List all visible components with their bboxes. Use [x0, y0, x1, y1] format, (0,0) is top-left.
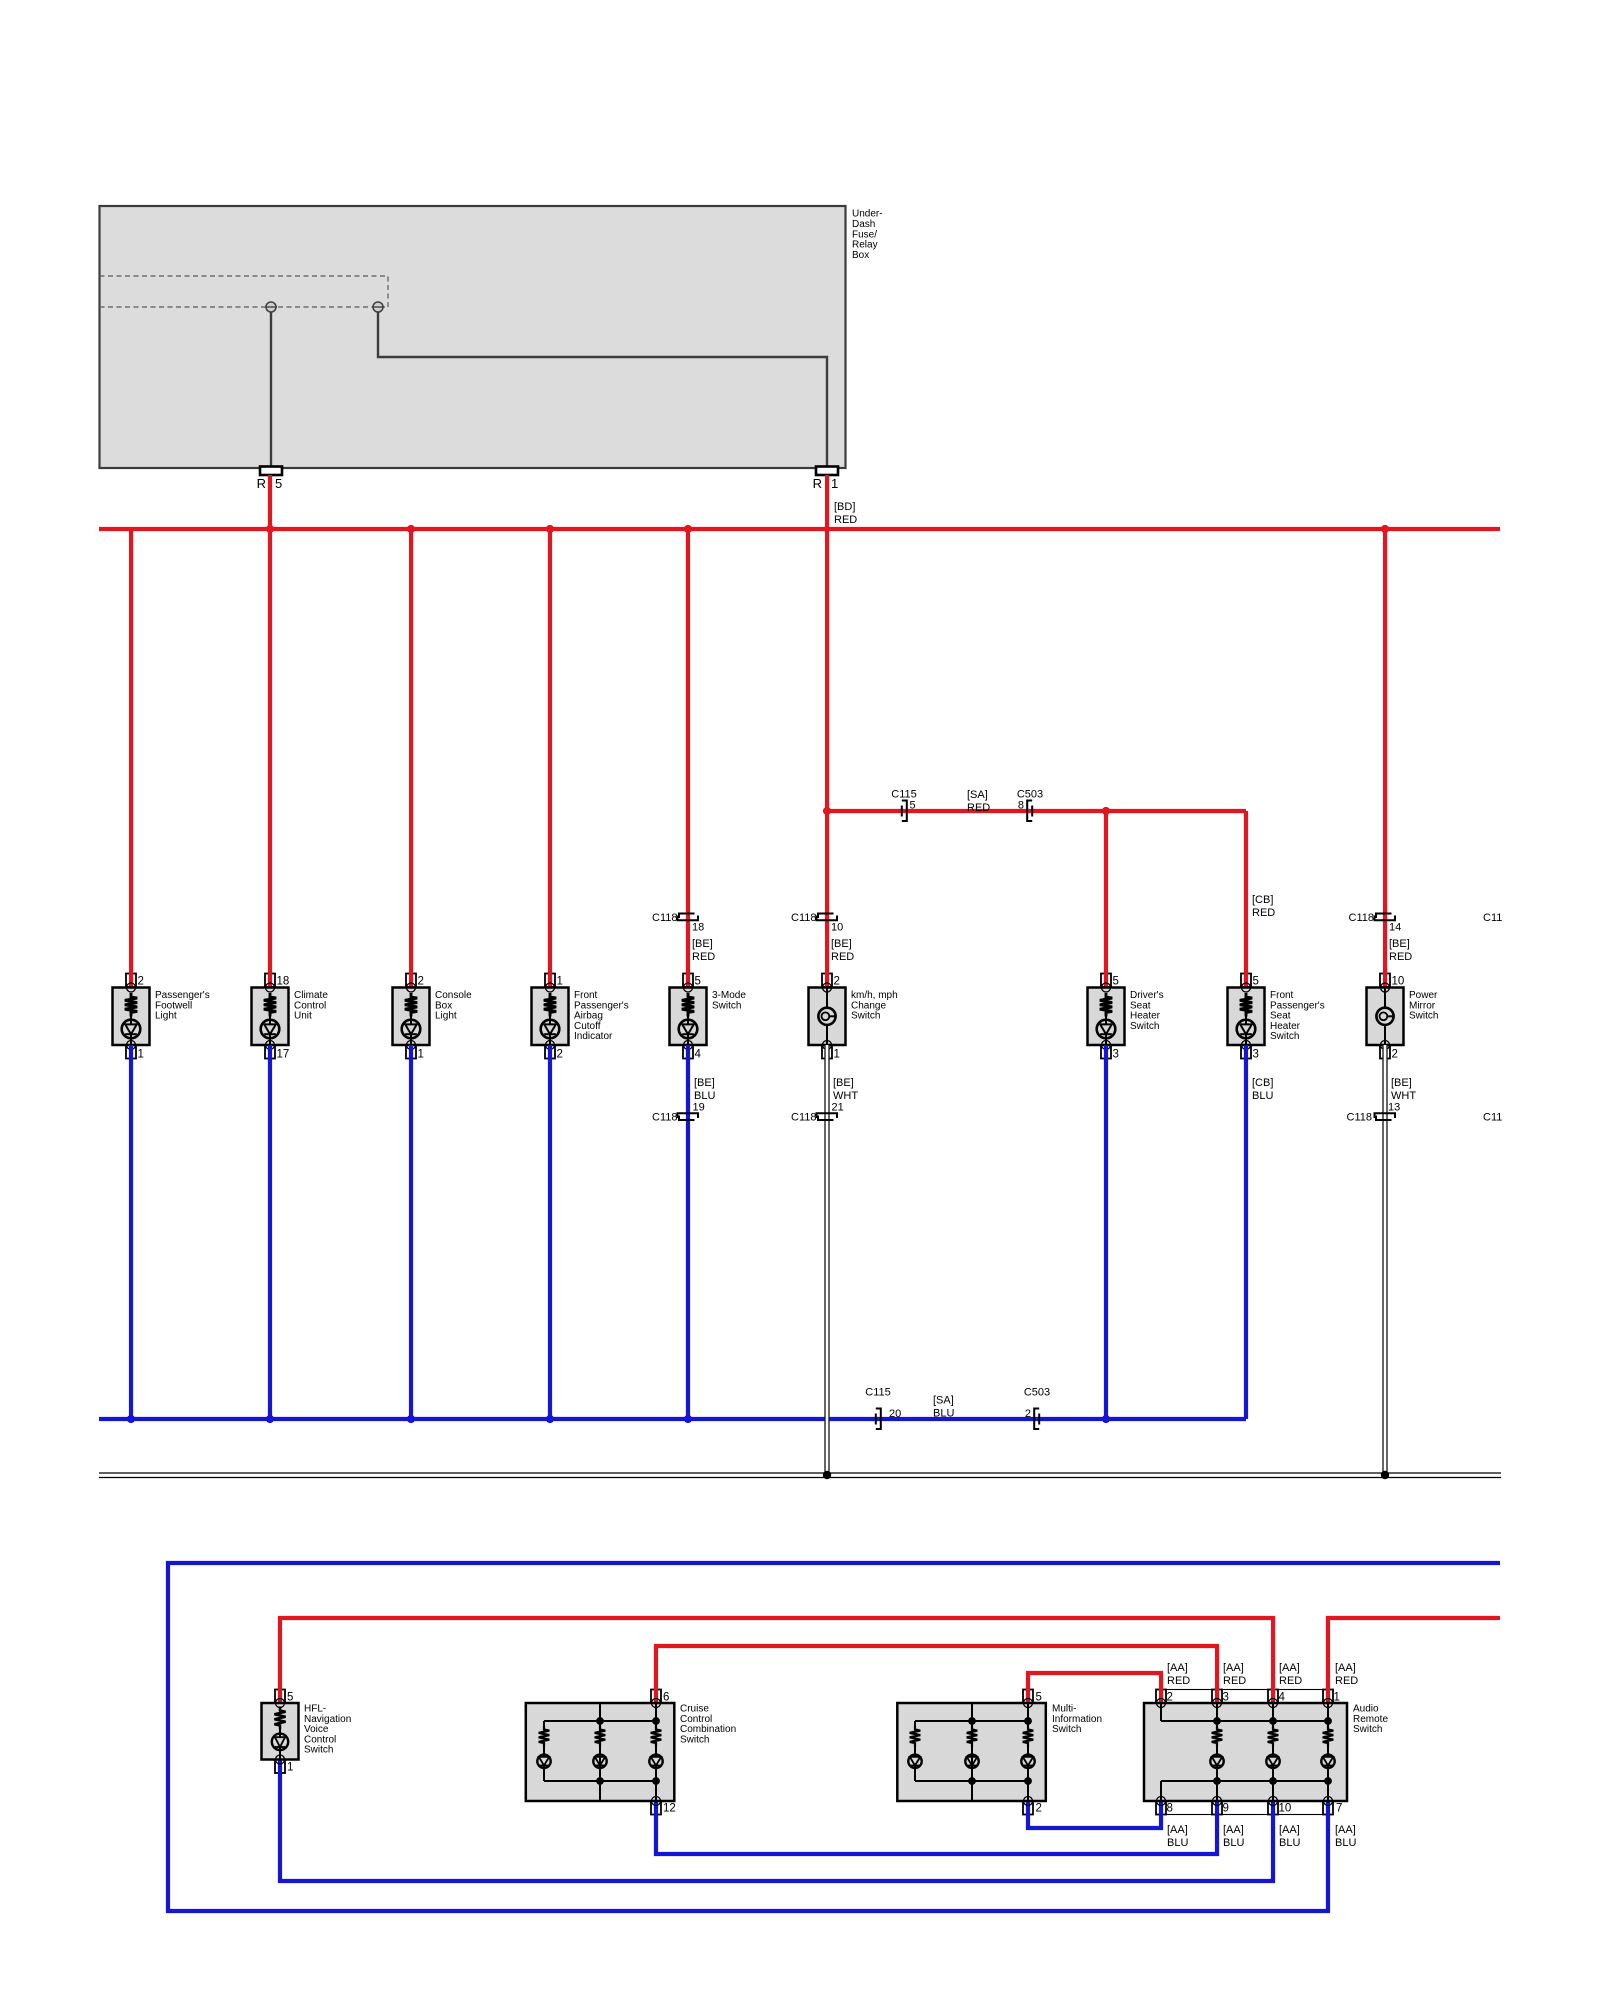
- wire: blue ground drop from Climate Control Unit pin 17: [268, 1045, 272, 1419]
- svg-text:6: 6: [663, 1692, 669, 1704]
- component: HFL-Navigation Voice Control Switch: [262, 1692, 352, 1774]
- svg-text:RED: RED: [967, 802, 990, 814]
- wire: blue [CB] BLU drop from Front Passenger's Seat Heater Switch pin 3: [1244, 1045, 1248, 1419]
- pin box bottom pin 8 of audio remote switch: [1156, 1801, 1166, 1815]
- component: Climate Control Unit: [252, 976, 329, 1061]
- svg-text:[CB]: [CB]: [1252, 894, 1273, 906]
- svg-text:C118: C118: [791, 912, 816, 924]
- wire label [BE] WHT at power mirror ground: [1391, 1077, 1416, 1102]
- wire label [CB] BLU at Front Passenger's Seat Heater Switch ground: [1252, 1077, 1273, 1102]
- svg-text:[SA]: [SA]: [967, 789, 988, 801]
- component: 3-Mode Switch: [670, 976, 747, 1061]
- svg-text:RED: RED: [1252, 907, 1275, 919]
- internal dashed bus inside fuse box: [100, 276, 389, 307]
- wire: red drop to Driver's Seat Heater Switch pin 5: [1104, 811, 1108, 988]
- svg-text:7: 7: [1336, 1803, 1342, 1815]
- svg-text:[BD]: [BD]: [834, 501, 855, 513]
- svg-text:Switch: Switch: [1270, 1031, 1299, 1042]
- junction dot white wire km/h switch on ground bar: [823, 1471, 831, 1479]
- wire: red drop to Front Passenger's Airbag Cutoff Indicator pin 1: [548, 529, 552, 988]
- pin box bottom pin 3 of Front component x=1246: [1241, 1045, 1251, 1059]
- wire: blue ground cruise pin 12 to audio remote pin 9: [656, 1801, 1217, 1854]
- svg-text:R: R: [257, 476, 266, 491]
- svg-text:[BE]: [BE]: [1391, 1077, 1412, 1089]
- pin box top pin 3 of audio remote switch: [1212, 1690, 1222, 1704]
- svg-text:C11: C11: [1483, 912, 1502, 924]
- svg-text:Switch: Switch: [1130, 1021, 1159, 1032]
- svg-text:Relay: Relay: [852, 240, 878, 251]
- svg-text:1: 1: [834, 1049, 840, 1061]
- svg-text:18: 18: [277, 976, 290, 988]
- svg-text:8: 8: [1018, 800, 1024, 812]
- svg-text:[AA]: [AA]: [1335, 1824, 1356, 1836]
- junction dot white wire power mirror on ground bar: [1381, 1471, 1389, 1479]
- wire label [BE] RED at 3-Mode Switch: [692, 938, 715, 963]
- pin box bottom pin 1 of HFL switch: [275, 1760, 285, 1774]
- svg-text:Switch: Switch: [1052, 1724, 1081, 1735]
- wire: blue ground drop from Airbag Cutoff Indicator pin 2: [548, 1045, 552, 1419]
- svg-text:Switch: Switch: [304, 1745, 333, 1756]
- junction dot blue bus at 1106,1419: [1102, 1415, 1110, 1423]
- wire: blue ground drop from Driver's Seat Heater Switch pin 3: [1104, 1045, 1108, 1419]
- pin box top pin 5 of multi-information switch: [1023, 1690, 1033, 1704]
- junction dot blue bus at 688,1419: [684, 1415, 692, 1423]
- svg-text:BLU: BLU: [1167, 1837, 1188, 1849]
- svg-text:RED: RED: [1335, 1675, 1358, 1687]
- svg-text:2: 2: [1392, 1049, 1398, 1061]
- pin box top pin 5 of Front component x=1246: [1241, 974, 1251, 988]
- internal node terminal for relay output R1: [372, 302, 384, 312]
- pin box top pin 4 of audio remote switch: [1268, 1690, 1278, 1704]
- pin box bottom pin 1 of Passenger's component x=131: [126, 1045, 136, 1059]
- component: Front Passenger's Seat Heater Switch: [1228, 976, 1325, 1061]
- connector C118 pin 18 (3-Mode Switch feed): [652, 912, 704, 934]
- svg-text:BLU: BLU: [1252, 1090, 1273, 1102]
- svg-text:2: 2: [1036, 1803, 1042, 1815]
- svg-text:1: 1: [287, 1762, 293, 1774]
- svg-text:18: 18: [692, 922, 704, 934]
- wire label [AA] BLU at audio remote bottom pin x=1167: [1167, 1824, 1188, 1849]
- wire: red drop to Power Mirror Switch pin 10 through connector C118: [1383, 529, 1387, 988]
- clipped connector label C118 at right page edge (top row): [1483, 912, 1502, 924]
- svg-text:Dash: Dash: [852, 219, 875, 230]
- svg-text:BLU: BLU: [1223, 1837, 1244, 1849]
- pin box top pin 6 of cruise switch: [651, 1690, 661, 1704]
- pin box top pin 5 of 3-Mode component x=688: [683, 974, 693, 988]
- wire label [AA] RED at audio remote top pin x=1167: [1167, 1662, 1190, 1687]
- wire label [SA] BLU: [933, 1395, 954, 1420]
- wire: red branch [SA] RED from km/h switch feed to seat heater switches: [827, 809, 1246, 813]
- svg-text:BLU: BLU: [694, 1090, 715, 1102]
- svg-text:Box: Box: [852, 250, 869, 261]
- junction dot red bus at 550,529: [546, 525, 554, 533]
- pin box bottom pin 2 of multi-information switch: [1023, 1801, 1033, 1815]
- box terminal R5: [257, 467, 283, 492]
- svg-text:9: 9: [1223, 1803, 1229, 1815]
- svg-text:[BE]: [BE]: [694, 1077, 715, 1089]
- svg-text:[AA]: [AA]: [1223, 1824, 1244, 1836]
- connector C118 pin 19 (3-Mode Switch ground): [652, 1102, 705, 1124]
- svg-text:RED: RED: [692, 951, 715, 963]
- svg-text:10: 10: [1392, 976, 1405, 988]
- pin box top pin 5 of HFL switch: [275, 1690, 285, 1704]
- svg-text:[CB]: [CB]: [1252, 1077, 1273, 1089]
- svg-text:RED: RED: [1389, 951, 1412, 963]
- connector C503 pin 2 on blue ground bus: [1024, 1387, 1050, 1430]
- svg-text:[AA]: [AA]: [1167, 1824, 1188, 1836]
- svg-text:BLU: BLU: [933, 1408, 954, 1420]
- svg-text:RED: RED: [1279, 1675, 1302, 1687]
- svg-text:1: 1: [138, 1049, 144, 1061]
- svg-text:Fuse/: Fuse/: [852, 229, 877, 240]
- component: Cruise Control Combination Switch: [526, 1692, 736, 1815]
- pin box top pin 2 of Passenger's component x=131: [126, 974, 136, 988]
- svg-text:2: 2: [138, 976, 144, 988]
- pin box bottom pin 7 of audio remote switch: [1323, 1801, 1333, 1815]
- wire: blue ground drop from Console Box Light pin 1: [409, 1045, 413, 1419]
- junction dot blue bus at 550,1419: [546, 1415, 554, 1423]
- svg-text:C503: C503: [1024, 1387, 1050, 1399]
- wire: red drop to 3-Mode Switch pin 5 through connector C118: [686, 529, 690, 988]
- wire inside box to terminal R1: [378, 312, 827, 467]
- junction dot red bus at 1385,529: [1381, 525, 1389, 533]
- wire: red feed HFL switch pin 5 to audio remote pin 4: [280, 1618, 1273, 1703]
- svg-text:5: 5: [1253, 976, 1259, 988]
- svg-text:Unit: Unit: [294, 1011, 312, 1022]
- audio remote switch top connector strip: [1157, 1690, 1332, 1704]
- svg-text:2: 2: [834, 976, 840, 988]
- wire label [BE] WHT at km/h switch ground: [833, 1077, 858, 1102]
- component: Console Box Light: [393, 976, 473, 1061]
- connector C118 pin 10 (km/h mph switch feed): [791, 912, 843, 934]
- svg-text:BLU: BLU: [1279, 1837, 1300, 1849]
- svg-text:Switch: Switch: [1409, 1011, 1438, 1022]
- white ground bar (double line): [99, 1473, 1501, 1478]
- wire: blue ground drop from 3-Mode Switch pin 4: [686, 1045, 690, 1419]
- pin box bottom pin 10 of audio remote switch: [1268, 1801, 1278, 1815]
- pin box top pin 2 of km/h, mph component x=827: [822, 974, 832, 988]
- pin box bottom pin 2 of Power component x=1385: [1380, 1045, 1390, 1059]
- svg-text:Indicator: Indicator: [574, 1031, 613, 1042]
- pin box bottom pin 4 of 3-Mode component x=688: [683, 1045, 693, 1059]
- blue ground bus [SA] BLU: [99, 1417, 1246, 1421]
- wire label [BE] RED at Power Mirror Switch: [1389, 938, 1412, 963]
- wire: red drop to Console Box Light pin 2: [409, 529, 413, 988]
- connector C118 pin 14 (Power Mirror Switch feed): [1349, 912, 1402, 934]
- svg-text:13: 13: [1388, 1102, 1400, 1114]
- svg-text:[AA]: [AA]: [1279, 1824, 1300, 1836]
- wire: blue ground drop from Passenger's Footwell Light pin 1: [129, 1045, 133, 1419]
- svg-text:4: 4: [1279, 1692, 1286, 1704]
- pin box bottom pin 2 of Front component x=550: [545, 1045, 555, 1059]
- svg-text:1: 1: [831, 476, 838, 491]
- box terminal R1: [813, 467, 839, 492]
- wire: red feed from terminal R1 down through bus to km/h mph Change Switch pin 2: [825, 475, 829, 988]
- svg-text:1: 1: [557, 976, 563, 988]
- svg-text:WHT: WHT: [1391, 1090, 1416, 1102]
- wire label [AA] BLU at audio remote bottom pin x=1223: [1223, 1824, 1244, 1849]
- junction dot blue bus at 411,1419: [407, 1415, 415, 1423]
- pin box bottom pin 3 of Driver's component x=1106: [1101, 1045, 1111, 1059]
- svg-text:Light: Light: [435, 1011, 457, 1022]
- svg-text:5: 5: [695, 976, 701, 988]
- audio remote switch bottom connector strip: [1157, 1801, 1332, 1815]
- red power bus [BD] RED from under-dash fuse box: [99, 527, 1500, 531]
- svg-text:Switch: Switch: [712, 1000, 741, 1011]
- svg-text:1: 1: [1334, 1692, 1340, 1704]
- junction dot red bus at 827,811: [823, 807, 831, 815]
- svg-text:RED: RED: [834, 514, 857, 526]
- svg-text:C118: C118: [1349, 912, 1374, 924]
- svg-text:2: 2: [557, 1049, 563, 1061]
- svg-text:5: 5: [287, 1692, 293, 1704]
- svg-text:BLU: BLU: [1335, 1837, 1356, 1849]
- svg-text:[SA]: [SA]: [933, 1395, 954, 1407]
- wire label [AA] BLU at audio remote bottom pin x=1279: [1279, 1824, 1300, 1849]
- pin box bottom pin 1 of Console component x=411: [406, 1045, 416, 1059]
- svg-text:20: 20: [889, 1408, 901, 1420]
- junction dot red bus at 688,529: [684, 525, 692, 533]
- svg-text:19: 19: [693, 1102, 705, 1114]
- junction dot red bus at 1106,811: [1102, 807, 1110, 815]
- svg-text:2: 2: [418, 976, 424, 988]
- pin box top pin 1 of Front component x=550: [545, 974, 555, 988]
- wire: blue loop from audio remote pin 7 around left edge to off-page right: [168, 1563, 1500, 1911]
- svg-text:[BE]: [BE]: [1389, 938, 1410, 950]
- svg-text:2: 2: [1025, 1408, 1031, 1420]
- svg-text:C118: C118: [652, 912, 677, 924]
- wire label [CB] RED at Front Passenger's Seat Heater Switch: [1252, 894, 1275, 919]
- pin box bottom pin 9 of audio remote switch: [1212, 1801, 1222, 1815]
- pin box bottom pin 1 of km/h, mph component x=827: [822, 1045, 832, 1059]
- wire: red feed audio remote pin 1 to off-page right: [1328, 1618, 1500, 1703]
- connector C115 pin 5 on [SA] RED branch: [891, 789, 916, 822]
- [BD] RED wire label: [834, 501, 857, 526]
- svg-text:[AA]: [AA]: [1335, 1662, 1356, 1674]
- pin box top pin 2 of Console component x=411: [406, 974, 416, 988]
- wire label [AA] BLU at audio remote bottom pin x=1335: [1335, 1824, 1356, 1849]
- svg-text:C118: C118: [1347, 1112, 1372, 1124]
- wire inside box to terminal R5: [270, 312, 272, 467]
- svg-text:WHT: WHT: [833, 1090, 858, 1102]
- svg-text:3: 3: [1113, 1049, 1119, 1061]
- wire label [SA] RED: [967, 789, 990, 814]
- svg-text:3: 3: [1253, 1049, 1259, 1061]
- component: Audio Remote Switch: [1144, 1692, 1388, 1815]
- junction dot blue bus at 270,1419: [266, 1415, 274, 1423]
- svg-text:12: 12: [663, 1803, 676, 1815]
- pin box top pin 5 of Driver's component x=1106: [1101, 974, 1111, 988]
- svg-text:RED: RED: [1223, 1675, 1246, 1687]
- component: Multi-Information Switch: [897, 1692, 1102, 1815]
- svg-text:17: 17: [277, 1049, 290, 1061]
- component: Front Passenger's Airbag Cutoff Indicator: [532, 976, 629, 1061]
- svg-text:3: 3: [1223, 1692, 1229, 1704]
- svg-text:Light: Light: [155, 1011, 177, 1022]
- svg-text:RED: RED: [831, 951, 854, 963]
- connector C118 pin 21 (km/h switch ground): [791, 1102, 844, 1124]
- pin box bottom pin 12 of cruise switch: [651, 1801, 661, 1815]
- svg-text:Switch: Switch: [851, 1011, 880, 1022]
- under-dash fuse/relay box: [100, 206, 883, 468]
- svg-text:[BE]: [BE]: [833, 1077, 854, 1089]
- svg-text:5: 5: [1036, 1692, 1042, 1704]
- svg-text:4: 4: [695, 1049, 702, 1061]
- svg-text:10: 10: [1279, 1803, 1292, 1815]
- svg-text:8: 8: [1167, 1803, 1173, 1815]
- wire label [AA] RED at audio remote top pin x=1223: [1223, 1662, 1246, 1687]
- svg-text:10: 10: [831, 922, 843, 934]
- connector C118 pin 13 (power mirror ground): [1347, 1102, 1401, 1124]
- svg-text:Switch: Switch: [680, 1734, 709, 1745]
- clipped connector label C118 at right page edge (bottom row): [1483, 1112, 1502, 1124]
- svg-text:[BE]: [BE]: [831, 938, 852, 950]
- svg-text:5: 5: [275, 476, 282, 491]
- wire: white [BE] WHT from km/h mph Change Switch pin 1 to ground bar: [824, 1045, 829, 1475]
- svg-text:C118: C118: [652, 1112, 677, 1124]
- component: Power Mirror Switch: [1367, 976, 1439, 1061]
- svg-text:R: R: [813, 476, 822, 491]
- svg-text:C11: C11: [1483, 1112, 1502, 1124]
- svg-text:C115: C115: [865, 1387, 890, 1399]
- svg-text:[AA]: [AA]: [1167, 1662, 1188, 1674]
- svg-text:14: 14: [1389, 922, 1401, 934]
- component: km/h, mph Change Switch: [809, 976, 898, 1061]
- svg-text:Switch: Switch: [1353, 1724, 1382, 1735]
- svg-text:[AA]: [AA]: [1279, 1662, 1300, 1674]
- junction dot red bus at 270,529: [266, 525, 274, 533]
- component: Passenger's Footwell Light: [113, 976, 210, 1061]
- wire label [AA] RED at audio remote top pin x=1279: [1279, 1662, 1302, 1687]
- wire: blue ground HFL pin 1 to audio remote pin 10: [280, 1760, 1273, 1882]
- svg-text:RED: RED: [1167, 1675, 1190, 1687]
- pin box top pin 18 of Climate component x=270: [265, 974, 275, 988]
- connector C115 pin 20 on blue ground bus: [865, 1387, 901, 1430]
- svg-text:5: 5: [910, 800, 916, 812]
- wire: blue ground multi-information pin 2 to audio remote pin 8: [1028, 1801, 1161, 1828]
- wire: red drop [CB] RED to Front Passenger's Seat Heater Switch pin 5: [1244, 811, 1248, 988]
- wire label [BE] BLU at 3-Mode Switch ground: [694, 1077, 715, 1102]
- svg-text:Under-: Under-: [852, 209, 883, 220]
- junction dot blue bus at 131,1419: [127, 1415, 135, 1423]
- pin box bottom pin 17 of Climate component x=270: [265, 1045, 275, 1059]
- svg-text:[BE]: [BE]: [692, 938, 713, 950]
- svg-text:C118: C118: [791, 1112, 816, 1124]
- junction dot red bus at 411,529: [407, 525, 415, 533]
- svg-text:1: 1: [418, 1049, 424, 1061]
- component: Driver's Seat Heater Switch: [1088, 976, 1164, 1061]
- wire: red feed from terminal R5 down to red bus and Climate Control Unit pin 18: [268, 475, 272, 988]
- wire: white [BE] WHT from Power Mirror Switch pin 2 to ground bar: [1382, 1045, 1387, 1475]
- pin box top pin 2 of audio remote switch: [1156, 1690, 1166, 1704]
- wire: red feed multi-information switch pin 5 to audio remote pin 2: [1028, 1673, 1161, 1703]
- svg-text:2: 2: [1167, 1692, 1173, 1704]
- internal node terminal for relay output R5: [265, 302, 277, 312]
- wire label [BE] RED at km/h mph switch: [831, 938, 854, 963]
- wire: red feed cruise switch pin 6 to audio remote pin 3: [656, 1646, 1217, 1703]
- wire: red drop to Passenger's Footwell Light pin 2: [129, 529, 133, 988]
- svg-text:21: 21: [832, 1102, 844, 1114]
- svg-text:5: 5: [1113, 976, 1119, 988]
- svg-text:[AA]: [AA]: [1223, 1662, 1244, 1674]
- pin box top pin 1 of audio remote switch: [1323, 1690, 1333, 1704]
- connector C503 pin 8 on [SA] RED branch: [1017, 789, 1043, 822]
- wire label [AA] RED at audio remote top pin x=1335: [1335, 1662, 1358, 1687]
- pin box top pin 10 of Power component x=1385: [1380, 974, 1390, 988]
